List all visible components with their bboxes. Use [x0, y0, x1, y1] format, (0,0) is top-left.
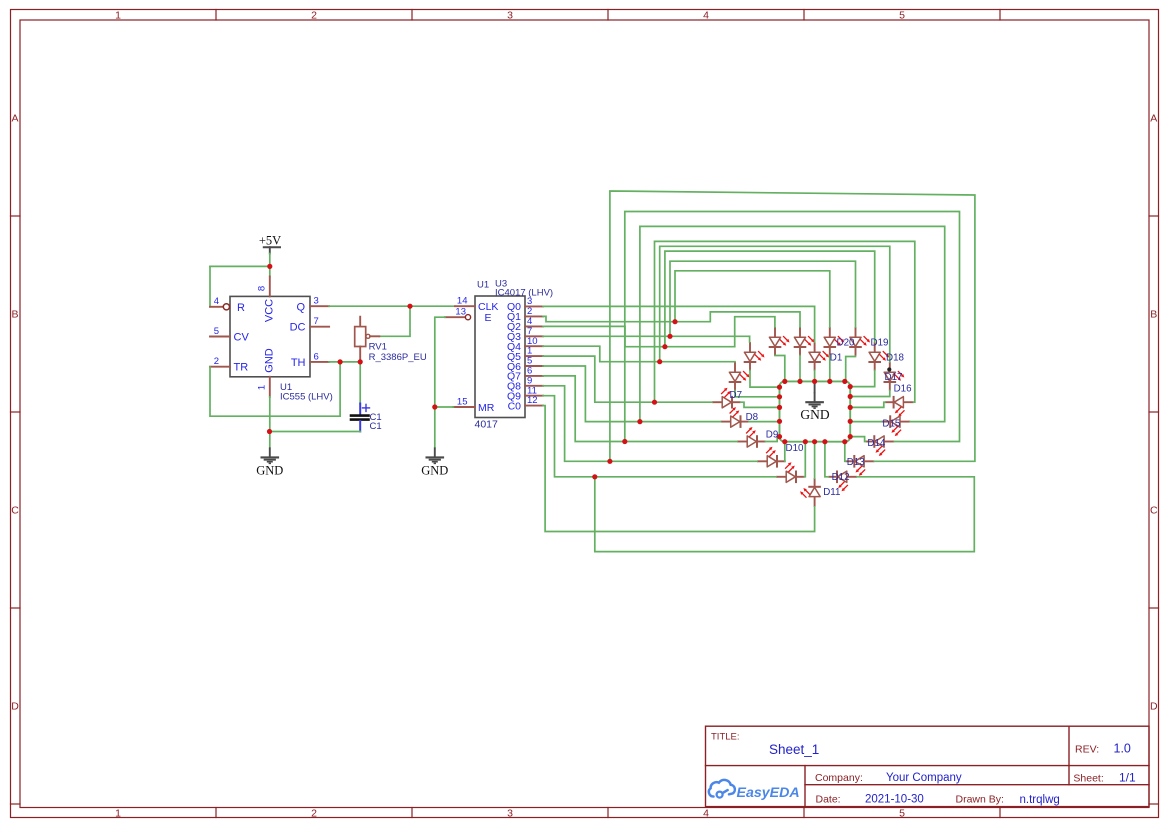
pin 2 Q1 — [507, 306, 543, 323]
pin 5 Q6 — [507, 356, 543, 373]
svg-text:Drawn By:: Drawn By: — [956, 794, 1004, 806]
svg-text:D13: D13 — [847, 457, 866, 468]
LED D16 — [885, 396, 914, 417]
svg-text:GND: GND — [421, 464, 448, 478]
svg-text:TR: TR — [234, 362, 249, 374]
svg-text:REV:: REV: — [1075, 744, 1099, 756]
C1 labels — [370, 412, 382, 432]
wire net Q5 to D7 and D16 loop — [543, 241, 915, 404]
svg-text:A: A — [1150, 113, 1157, 125]
LED D14 — [866, 435, 895, 456]
svg-text:D20: D20 — [837, 338, 856, 349]
svg-text:D11: D11 — [823, 487, 840, 498]
pin 7 Q3 — [507, 326, 543, 343]
svg-text:2: 2 — [214, 356, 219, 367]
pin 13 E — [445, 306, 471, 320]
pin 5 CV — [210, 326, 230, 337]
svg-text:15: 15 — [457, 396, 468, 407]
U1 label — [280, 382, 333, 402]
svg-text:D16: D16 — [894, 383, 913, 394]
svg-text:C: C — [1150, 505, 1158, 517]
svg-text:E: E — [485, 312, 492, 324]
svg-text:B: B — [1150, 309, 1157, 321]
svg-text:Date:: Date: — [816, 794, 841, 806]
power +5V — [259, 233, 281, 253]
svg-text:D12: D12 — [832, 472, 850, 483]
svg-text:3: 3 — [507, 807, 513, 819]
LED D11 — [800, 478, 821, 507]
wire net Q4 to LED and D17 loop — [543, 246, 890, 364]
pin 4 R — [210, 296, 229, 310]
wire C1 bottom to GND net — [270, 397, 361, 448]
svg-text:3: 3 — [314, 296, 319, 307]
svg-text:n.trqlwg: n.trqlwg — [1020, 794, 1060, 806]
svg-text:Sheet_1: Sheet_1 — [769, 742, 819, 757]
svg-text:2021-10-30: 2021-10-30 — [865, 794, 924, 806]
svg-text:D19: D19 — [871, 338, 889, 349]
svg-text:1: 1 — [115, 9, 121, 21]
svg-text:7: 7 — [314, 316, 319, 327]
svg-text:5: 5 — [899, 807, 905, 819]
wire E to MR to GND — [435, 317, 454, 447]
LED D9 — [737, 427, 766, 448]
svg-text:B: B — [11, 309, 18, 321]
pin 3 Q — [310, 296, 329, 307]
pin 1 Q5 — [507, 346, 543, 363]
svg-text:14: 14 — [457, 296, 468, 307]
svg-text:5: 5 — [899, 9, 905, 21]
svg-text:Company:: Company: — [815, 772, 863, 784]
wire net Q2 to top LED and D18 loop — [543, 251, 875, 349]
wire net Q3 to LED and D19 loop — [543, 261, 855, 342]
LED D6 inner bottom-left — [776, 462, 805, 483]
svg-text:CV: CV — [234, 332, 250, 344]
LED D4 second row left — [744, 342, 765, 371]
wire net Q8 to D10 and D13 loop — [543, 191, 975, 464]
LED D3 top-left inner — [794, 327, 815, 356]
LED D19 — [849, 327, 870, 356]
svg-text:A: A — [11, 113, 18, 125]
svg-text:13: 13 — [455, 306, 466, 317]
svg-text:4: 4 — [703, 807, 709, 819]
svg-text:U1: U1 — [477, 279, 489, 290]
LED D8 — [721, 407, 750, 428]
LED D10 — [757, 447, 786, 468]
LED D7 — [712, 388, 741, 409]
svg-text:R: R — [237, 302, 245, 314]
svg-text:1.0: 1.0 — [1114, 742, 1131, 756]
node dots on GND square — [777, 379, 853, 445]
pin 1 GND — [257, 377, 270, 397]
svg-text:GND: GND — [800, 407, 829, 422]
svg-text:2: 2 — [311, 9, 317, 21]
U3 labels — [475, 278, 554, 430]
svg-text:DC: DC — [290, 322, 306, 334]
pin 12 C0 — [508, 395, 544, 412]
svg-text:+5V: +5V — [259, 233, 281, 247]
svg-text:D18: D18 — [886, 353, 905, 364]
svg-text:D15: D15 — [882, 418, 901, 429]
pin 6 Q7 — [507, 366, 543, 383]
wire net Q6 to D8 and D15 loop — [543, 226, 945, 424]
svg-text:TITLE:: TITLE: — [711, 731, 740, 742]
svg-text:D7: D7 — [730, 390, 743, 401]
svg-text:C0: C0 — [508, 400, 522, 412]
pin 14 CLK — [455, 296, 475, 307]
svg-text:GND: GND — [264, 348, 276, 373]
LED D1 — [808, 342, 829, 371]
svg-text:D: D — [11, 701, 19, 713]
LED D18 — [868, 342, 889, 371]
LED D2 top-left outer — [769, 327, 790, 356]
RV1 labels — [369, 342, 427, 363]
wire TH node — [329, 361, 360, 363]
LED reference labels — [730, 338, 913, 498]
LED D15 — [882, 415, 911, 436]
svg-text:VCC: VCC — [264, 299, 276, 322]
wire net C0 to D11 — [543, 406, 815, 532]
title block — [706, 726, 1150, 806]
node TH junction — [267, 264, 413, 434]
LED D17 — [884, 362, 905, 391]
svg-text:D1: D1 — [830, 352, 843, 363]
svg-text:D17: D17 — [885, 372, 903, 383]
pin 7 DC — [310, 316, 329, 327]
svg-text:1: 1 — [257, 385, 268, 390]
pin 3 Q0 — [507, 296, 543, 313]
IC U3 4017 box — [475, 296, 525, 418]
pin 11 Q9 — [507, 385, 543, 402]
wire net Q1 to LED row and D20 loop — [543, 271, 830, 327]
wire +5V to VCC and R — [210, 254, 270, 307]
svg-text:4: 4 — [214, 296, 219, 307]
svg-text:MR: MR — [478, 402, 495, 414]
ground 555 — [256, 447, 283, 477]
svg-text:1: 1 — [115, 807, 121, 819]
GND square of heart — [780, 381, 851, 441]
wire RV1 wiper to Q net — [379, 306, 410, 336]
svg-text:Q: Q — [296, 301, 305, 313]
op-amp U1 IC555 box — [230, 296, 310, 376]
pin 8 VCC — [257, 277, 270, 297]
svg-text:3: 3 — [507, 9, 513, 21]
svg-text:D8: D8 — [746, 412, 759, 423]
svg-text:2: 2 — [311, 807, 317, 819]
svg-text:TH: TH — [291, 357, 306, 369]
LED D5 third row left — [729, 362, 750, 391]
svg-text:R_3386P_EU: R_3386P_EU — [369, 352, 427, 363]
svg-text:EasyEDA: EasyEDA — [737, 785, 800, 801]
pin 4 Q2 — [507, 316, 543, 333]
wire Q to CLK — [329, 305, 455, 307]
wire TH to C1 — [359, 362, 361, 404]
svg-text:D10: D10 — [786, 443, 805, 454]
svg-text:12: 12 — [527, 395, 538, 406]
pin 6 TH — [310, 351, 329, 362]
svg-text:1/1: 1/1 — [1119, 770, 1136, 784]
pin 2 TR — [210, 356, 230, 367]
svg-text:Your Company: Your Company — [886, 772, 962, 784]
black dot near D17 — [887, 367, 891, 371]
pin 10 Q4 — [507, 336, 543, 353]
resistor RV1 trimmer — [355, 317, 380, 362]
LED D12 — [828, 471, 857, 492]
pin 15 MR — [453, 396, 475, 407]
svg-text:IC4017 (LHV): IC4017 (LHV) — [495, 288, 553, 299]
ground heart center — [800, 384, 829, 422]
wire cathode routing left top — [735, 356, 890, 479]
svg-text:C: C — [11, 505, 19, 517]
EasyEDA logo — [709, 780, 800, 801]
ground 4017 — [421, 404, 448, 477]
svg-text:8: 8 — [257, 286, 268, 291]
svg-text:4: 4 — [703, 9, 709, 21]
svg-text:D: D — [1150, 701, 1158, 713]
wire net Q7 to D9 and D14 loop — [543, 212, 959, 445]
svg-text:D14: D14 — [867, 438, 886, 449]
LED D20 — [824, 327, 845, 356]
wire TR loop — [210, 362, 340, 416]
svg-text:6: 6 — [314, 351, 319, 362]
wire net Q0 to D1 — [543, 306, 815, 342]
capacitor C1 — [351, 404, 370, 432]
svg-text:5: 5 — [214, 326, 219, 337]
LED D13 — [846, 455, 875, 476]
pin 9 Q8 — [507, 375, 543, 392]
svg-text:Sheet:: Sheet: — [1073, 773, 1103, 785]
svg-text:IC555 (LHV): IC555 (LHV) — [280, 391, 333, 402]
svg-text:C1: C1 — [370, 421, 382, 432]
svg-text:GND: GND — [256, 464, 283, 478]
svg-text:4017: 4017 — [475, 419, 499, 431]
wire net Q9 to inner LED and D12 loop — [543, 396, 974, 552]
svg-text:D9: D9 — [766, 430, 779, 441]
